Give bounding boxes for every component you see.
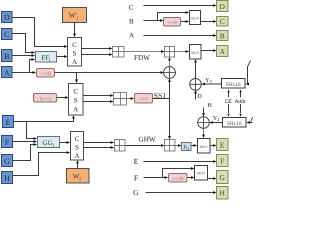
wire CSA1 sum out bbox=[82, 48, 110, 50]
output register B2 bbox=[217, 31, 229, 41]
wire A branch to FF bbox=[30, 60, 32, 73]
rotator left 7 bbox=[135, 94, 153, 104]
wire MUX1 out to reg C2 bbox=[201, 21, 214, 23]
register B bbox=[2, 50, 13, 62]
wire E to CSA2 bottom bbox=[14, 119, 74, 122]
carry-save adder CSA2 bbox=[69, 84, 84, 116]
output register F2 bbox=[217, 155, 229, 167]
mux MUX1 bbox=[190, 11, 201, 25]
wire D to CSA1 bbox=[13, 18, 65, 47]
svg-text:C: C bbox=[4, 30, 9, 39]
wire row A to reg B2 bbox=[144, 35, 214, 37]
output register H2 bbox=[217, 187, 229, 200]
constant Tj rot j bbox=[34, 94, 57, 103]
boolean function GGj bbox=[38, 137, 60, 149]
wire Tj out to CSA2 bbox=[57, 97, 66, 99]
mux MUX2 bbox=[198, 139, 211, 154]
svg-text:Addr: Addr bbox=[235, 99, 246, 105]
svg-text:E: E bbox=[134, 157, 139, 166]
xor SS2 bbox=[164, 67, 176, 79]
svg-text:MUX: MUX bbox=[197, 172, 206, 176]
svg-text:SRL16: SRL16 bbox=[226, 82, 242, 88]
wire G to GG bbox=[13, 145, 34, 161]
adder TT1 bbox=[190, 79, 202, 91]
wire CPA5 out to MUX1b bbox=[175, 51, 186, 53]
svg-text:G: G bbox=[4, 157, 10, 166]
svg-text:F: F bbox=[220, 156, 224, 165]
svg-text:SS1: SS1 bbox=[154, 91, 166, 100]
carry-propagate adder CPA4 bbox=[165, 140, 176, 152]
wire row G to reg H2 bbox=[146, 192, 214, 194]
wire F to GG bbox=[13, 141, 34, 143]
wire feedback slash into SRL1 bbox=[248, 61, 251, 67]
wire P0 out to MUX2 bbox=[191, 145, 194, 147]
svg-text:A: A bbox=[129, 31, 134, 39]
wire CSA2 sum out bbox=[83, 95, 110, 97]
svg-text:Tj<<<j: Tj<<<j bbox=[39, 96, 50, 102]
wire SS1 out bbox=[153, 98, 170, 100]
svg-text:FDW: FDW bbox=[134, 54, 150, 62]
carry-save adder CSA3 bbox=[71, 132, 84, 161]
wire row C to reg D2 bbox=[144, 5, 214, 7]
register C bbox=[2, 29, 13, 40]
wire rot12 branch down to CSA2 bbox=[76, 73, 78, 80]
svg-text:Y3: Y3 bbox=[205, 77, 212, 84]
svg-text:<<<12: <<<12 bbox=[40, 71, 51, 76]
rotator left 9 bbox=[164, 18, 181, 27]
wire row F bypass to MUX3 bbox=[163, 169, 192, 178]
svg-text:C: C bbox=[75, 135, 80, 143]
wire adder2 up to MUX1b bbox=[195, 63, 197, 79]
svg-text:B: B bbox=[220, 32, 225, 41]
wire Wj up to CSA3 bbox=[77, 164, 79, 168]
wire GG out to CSA3 bbox=[60, 142, 67, 144]
svg-text:G: G bbox=[219, 173, 225, 182]
wire MUX1b out to reg A2 bbox=[201, 50, 213, 52]
wire CPA2 out to rot7 bbox=[127, 98, 131, 100]
carry-propagate adder CPA3 bbox=[115, 140, 126, 152]
svg-text:H: H bbox=[207, 102, 212, 109]
mux MUX3 bbox=[195, 166, 208, 181]
wire adder3 down to MUX2 bbox=[203, 128, 205, 134]
output register A2 bbox=[217, 46, 229, 57]
carry-propagate adder CPA5 bbox=[165, 47, 175, 58]
wire FF out to CSA1 bbox=[57, 56, 64, 58]
output register C2 bbox=[217, 17, 229, 27]
output register E2 bbox=[217, 139, 229, 151]
register A bbox=[2, 67, 13, 78]
svg-text:D: D bbox=[219, 2, 225, 11]
svg-text:C: C bbox=[129, 3, 134, 11]
wire H stub to adder3 bbox=[203, 108, 205, 114]
svg-text:H: H bbox=[219, 189, 225, 198]
register F bbox=[2, 136, 13, 148]
register G bbox=[2, 155, 13, 167]
wire B to FF bbox=[13, 55, 32, 57]
message word W'j bbox=[63, 8, 87, 23]
svg-text:<<<7: <<<7 bbox=[139, 97, 149, 102]
svg-text:A: A bbox=[219, 47, 225, 56]
wire CPA4 out to P0 bbox=[175, 145, 178, 147]
wire D stub to adder2 bbox=[195, 94, 197, 100]
mux MUX1b bbox=[190, 45, 202, 60]
wire XOR1 up to CPA5 bbox=[169, 61, 171, 67]
wire CE vertical bbox=[228, 92, 230, 113]
svg-text:MUX: MUX bbox=[200, 145, 209, 149]
wire GHW CPA3 to CPA4 bbox=[125, 145, 161, 147]
register D bbox=[2, 12, 13, 23]
svg-text:G: G bbox=[133, 188, 139, 197]
wire row E to reg F2 bbox=[144, 161, 214, 163]
wire Addr vertical bbox=[240, 92, 242, 113]
adder TT2 bbox=[198, 117, 210, 129]
svg-text:A: A bbox=[74, 152, 79, 160]
wire rot19 out to MUX3 bbox=[187, 177, 191, 179]
svg-text:A: A bbox=[4, 68, 10, 77]
svg-text:Y2: Y2 bbox=[213, 115, 220, 122]
svg-text:D: D bbox=[4, 13, 10, 22]
svg-text:C: C bbox=[220, 17, 225, 26]
register E bbox=[3, 116, 14, 128]
wire CPA1 out FDW to CPA5 bbox=[124, 51, 161, 53]
wire MUX3 out to reg G2 bbox=[208, 178, 214, 180]
svg-text:E: E bbox=[220, 140, 225, 149]
wire MUX2 out to reg E2 bbox=[210, 145, 213, 147]
wire SRL2 out Y2 to adder3 bbox=[213, 122, 222, 124]
message word Wj bbox=[67, 169, 90, 184]
svg-text:F: F bbox=[134, 173, 139, 182]
wire SRL1 out Y3 to adder2 bbox=[205, 83, 222, 85]
svg-text:B: B bbox=[129, 17, 134, 25]
svg-text:CE: CE bbox=[225, 99, 233, 105]
carry-save adder CSA1 bbox=[68, 38, 82, 67]
svg-text:S: S bbox=[73, 50, 77, 58]
svg-text:D: D bbox=[197, 93, 202, 100]
wire CSA1 carry out bbox=[82, 54, 110, 56]
wire row B bypass to MUX1 bbox=[158, 13, 186, 21]
rotator left 19 bbox=[169, 174, 188, 183]
wire rot9 out to MUX1 bbox=[181, 21, 186, 23]
wire SS1 up to XOR1 bbox=[169, 82, 171, 99]
register H bbox=[2, 172, 13, 184]
rotator left 12 bbox=[37, 69, 55, 78]
svg-text:H: H bbox=[4, 174, 10, 183]
svg-text:S: S bbox=[74, 97, 78, 105]
svg-text:MUX: MUX bbox=[191, 51, 200, 55]
carry-propagate adder CPA1 bbox=[113, 47, 125, 58]
wire W-prime-j down to CSA1 bbox=[74, 23, 76, 34]
svg-text:A: A bbox=[73, 106, 78, 114]
svg-text:<<<19: <<<19 bbox=[172, 176, 184, 181]
wire A rot12 to XOR1 bbox=[55, 72, 161, 74]
wire SS1 down to CPA4 bbox=[169, 99, 171, 137]
svg-text:MUX: MUX bbox=[191, 17, 200, 21]
svg-text:C: C bbox=[73, 88, 78, 96]
svg-text:E: E bbox=[6, 118, 11, 127]
wire C to FF bbox=[12, 34, 32, 53]
svg-text:A: A bbox=[72, 58, 77, 66]
wire stub into SRL2 right bbox=[251, 117, 253, 122]
carry-propagate adder CPA2 bbox=[114, 93, 127, 106]
wire row F to rot19 bbox=[144, 177, 165, 179]
wire row B to rot9 bbox=[144, 20, 161, 22]
shift register SRL16 lower bbox=[223, 118, 247, 128]
wire A to rot12 bbox=[13, 72, 33, 74]
svg-text:F: F bbox=[5, 138, 10, 147]
svg-text:SRL16: SRL16 bbox=[227, 121, 243, 127]
svg-text:C: C bbox=[72, 41, 77, 49]
shift register SRL16 upper bbox=[222, 79, 246, 89]
svg-text:<<<9: <<<9 bbox=[168, 20, 178, 25]
wire E branch down to GG bbox=[27, 122, 34, 139]
svg-text:GHW: GHW bbox=[139, 135, 156, 143]
wire CSA2 carry out bbox=[83, 101, 110, 103]
output register D2 bbox=[217, 1, 229, 12]
wire CSA3 carry out bbox=[84, 147, 111, 149]
output register G2 bbox=[217, 171, 229, 184]
permutation P0 bbox=[182, 143, 192, 151]
wire CSA3 sum out bbox=[84, 142, 111, 144]
boolean function FFj bbox=[36, 52, 57, 64]
wire H to CSA3 bbox=[13, 153, 67, 176]
svg-text:P0: P0 bbox=[183, 145, 189, 151]
svg-text:S: S bbox=[75, 144, 79, 152]
svg-text:B: B bbox=[4, 52, 9, 61]
